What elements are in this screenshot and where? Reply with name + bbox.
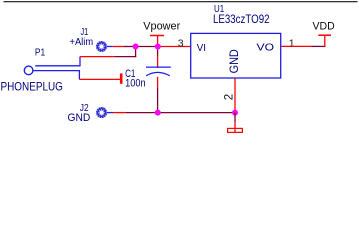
- terminal bar: [120, 73, 123, 83]
- connector J2: [97, 108, 113, 118]
- wire J1 to node A: [113, 46, 124, 48]
- wire node C to node D: [158, 112, 235, 114]
- node B junction: [155, 44, 161, 50]
- svg-text:PHONEPLUG: PHONEPLUG: [1, 79, 63, 93]
- capacitor C1: [146, 47, 171, 113]
- svg-text:1: 1: [289, 37, 295, 49]
- wire J2 to node C: [113, 112, 126, 114]
- node C junction: [155, 110, 161, 116]
- svg-text:LE33czTO92: LE33czTO92: [213, 12, 270, 26]
- connector P1 PHONEPLUG: [24, 57, 80, 80]
- wire U1 VO to VDD: [281, 45, 311, 47]
- wire node B to U1 VI: [158, 46, 191, 48]
- wire node A to node B: [136, 46, 158, 48]
- svg-text:3: 3: [178, 37, 184, 49]
- wire P1 sleeve branch to terminal bar: [79, 78, 120, 80]
- wire P1 tip to node A (top branch): [80, 56, 114, 58]
- node D junction: [232, 110, 238, 116]
- svg-text:2: 2: [223, 94, 235, 100]
- svg-text:GND: GND: [227, 49, 241, 73]
- svg-text:GND: GND: [68, 112, 91, 124]
- sheet border top line: [4, 1, 358, 3]
- regulator U1 LE33czTO92: [191, 33, 281, 78]
- connector J1: [97, 42, 113, 52]
- svg-text:VO: VO: [257, 41, 275, 53]
- node A junction: [133, 44, 139, 50]
- power terminal Vpower: [150, 36, 164, 47]
- svg-text:P1: P1: [35, 46, 45, 58]
- power terminal VDD: [318, 34, 331, 36]
- svg-text:VDD: VDD: [313, 21, 335, 33]
- pin U1 GND to node D: [234, 78, 236, 113]
- svg-text:+Alim: +Alim: [70, 37, 94, 48]
- svg-text:Vpower: Vpower: [143, 20, 180, 32]
- svg-text:100n: 100n: [125, 78, 146, 90]
- svg-text:VI: VI: [197, 42, 206, 54]
- ground symbol: [228, 113, 243, 133]
